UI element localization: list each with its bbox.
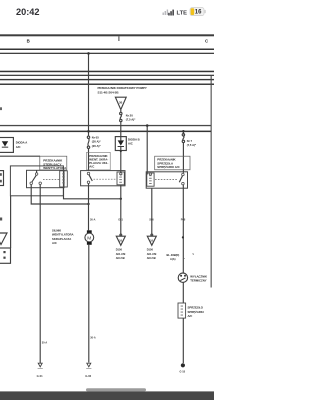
svg-text:G01: G01 bbox=[118, 219, 123, 222]
fan relay coil bbox=[60, 171, 68, 187]
svg-text:*: * bbox=[184, 258, 185, 260]
fan relay top pin wire bbox=[36, 170, 38, 173]
compressor relay K3 bbox=[146, 172, 187, 188]
thermal switch bbox=[178, 273, 187, 282]
status signal bars dark bbox=[168, 10, 174, 16]
wire below diode B bbox=[120, 151, 122, 173]
bus line 7 bbox=[0, 125, 211, 126]
svg-text:(20 A)*: (20 A)* bbox=[92, 144, 102, 148]
svg-text:30-A: 30-A bbox=[90, 337, 96, 340]
left lower box bbox=[0, 248, 11, 263]
svg-text:SPRĘŻARKI A/C: SPRĘŻARKI A/C bbox=[157, 165, 180, 169]
svg-text:16: 16 bbox=[195, 10, 202, 16]
diode B bbox=[118, 140, 124, 145]
bus line 5 bbox=[0, 79, 214, 80]
svg-text:30-A: 30-A bbox=[42, 342, 48, 345]
condenser relay K2 bbox=[81, 171, 125, 186]
wire fan relay pin2 long down bbox=[39, 185, 41, 364]
fan relay outer box bbox=[10, 166, 63, 196]
connector triangle D156 right bbox=[151, 234, 153, 236]
diode A box bbox=[0, 138, 13, 153]
svg-text:BL-03B(D): BL-03B(D) bbox=[167, 253, 180, 257]
svg-text:30-A: 30-A bbox=[90, 219, 96, 222]
wire compressor switch feed bbox=[182, 131, 184, 134]
svg-text:LTE: LTE bbox=[177, 11, 188, 17]
compressor relay coil bbox=[147, 173, 154, 186]
fan relay label box bbox=[40, 156, 67, 170]
ground G01 left bbox=[38, 363, 42, 367]
junction coil bottom bus bbox=[120, 198, 122, 200]
svg-text:(7,5 A)*: (7,5 A)* bbox=[187, 143, 197, 147]
bus line 3 bbox=[0, 71, 214, 73]
condenser relay label box bbox=[87, 152, 111, 170]
junction on bus8 bbox=[87, 130, 90, 133]
wire diode B column bbox=[120, 124, 122, 137]
svg-text:Nr 7: Nr 7 bbox=[187, 139, 193, 143]
svg-text:M: M bbox=[87, 235, 91, 241]
compressor relay label box bbox=[155, 156, 190, 170]
wire right coil feed bbox=[146, 126, 148, 175]
wire clutch down bbox=[182, 318, 184, 363]
svg-text:S11-4B S04-5B: S11-4B S04-5B bbox=[98, 91, 120, 95]
condenser relay coil bbox=[117, 172, 124, 185]
svg-text:A/C: A/C bbox=[188, 314, 193, 318]
frame tick bbox=[118, 36, 119, 41]
svg-text:TERMICZNY: TERMICZNY bbox=[190, 279, 206, 283]
svg-text:PRZEKAźNIK DODATKOWY POMPY: PRZEKAźNIK DODATKOWY POMPY bbox=[98, 86, 147, 90]
svg-text:A01-CM: A01-CM bbox=[147, 252, 157, 256]
junction on bus8 bbox=[182, 130, 185, 133]
svg-text:A/C: A/C bbox=[16, 145, 21, 149]
condenser coil top pin bbox=[120, 173, 122, 175]
svg-text:A(A): A(A) bbox=[170, 257, 176, 261]
connector triangle D156 left bbox=[120, 234, 122, 236]
diagram top frame line bbox=[0, 34, 214, 36]
compressor clutch coil bbox=[178, 303, 186, 318]
svg-text:(7,5 A)*: (7,5 A)* bbox=[126, 117, 136, 121]
svg-text:B: B bbox=[27, 39, 30, 44]
wire splice dot bbox=[182, 236, 184, 238]
diode A bbox=[2, 141, 8, 146]
svg-text:A/C: A/C bbox=[52, 241, 57, 245]
junction below diode B bbox=[120, 150, 122, 152]
bottom nav bar bbox=[0, 391, 214, 400]
wire compressor switch down bbox=[182, 185, 184, 273]
svg-text:20:42: 20:42 bbox=[16, 7, 40, 17]
right page border bbox=[211, 76, 212, 288]
fuse Nr05 bbox=[87, 136, 89, 170]
ground G06 motor bbox=[87, 363, 91, 367]
svg-text:S06: S06 bbox=[149, 219, 154, 222]
bus line 8 bbox=[0, 131, 211, 133]
home pill bbox=[86, 388, 146, 391]
ground compressor bbox=[181, 363, 185, 367]
svg-text:G-06: G-06 bbox=[85, 374, 91, 378]
bus line 4 bbox=[0, 75, 214, 76]
fan relay K1 bbox=[27, 170, 65, 187]
svg-text:A04-5B: A04-5B bbox=[116, 256, 125, 260]
svg-text:G-18: G-18 bbox=[180, 371, 186, 374]
svg-text:P08: P08 bbox=[181, 219, 186, 222]
svg-text:A01-CM: A01-CM bbox=[116, 252, 126, 256]
wire fan relay pin1 down right bbox=[31, 185, 88, 204]
fuse Nr20 bbox=[120, 110, 122, 124]
compressor coil top pin bbox=[149, 173, 151, 175]
wire fan relay coil bottom bbox=[64, 187, 121, 199]
wire to clutch bbox=[182, 282, 184, 303]
wire fan fuse column bbox=[88, 53, 90, 136]
svg-text:30: 30 bbox=[119, 100, 123, 104]
svg-text:D156: D156 bbox=[147, 248, 154, 252]
svg-text:A04-5B: A04-5B bbox=[147, 256, 156, 260]
svg-text:A/C: A/C bbox=[128, 142, 133, 146]
diode B box bbox=[115, 137, 126, 151]
wire outer box pin down bbox=[10, 196, 12, 248]
svg-text:G-01: G-01 bbox=[37, 374, 43, 378]
svg-text:D156: D156 bbox=[116, 248, 123, 252]
status signal bars gray bbox=[163, 10, 169, 16]
wire condenser coil bottom down bbox=[120, 185, 122, 236]
junction on bus7 bbox=[146, 124, 149, 127]
wire compressor coil bottom bbox=[151, 188, 153, 236]
bus line 1 bbox=[0, 49, 214, 51]
fuse Nr7 bbox=[182, 134, 184, 173]
junction motor column bbox=[87, 203, 89, 205]
wire from left edge to fan relay label box bbox=[0, 155, 40, 157]
wire motor down bbox=[88, 245, 90, 363]
motor M bbox=[87, 230, 92, 233]
left edge small box bbox=[0, 171, 4, 186]
connector triangle 30 bbox=[115, 97, 126, 109]
status battery icon bbox=[190, 8, 204, 16]
junction on bus2 bbox=[87, 52, 90, 55]
connector triangle left cut bbox=[0, 233, 7, 245]
bus line 6 bbox=[0, 84, 214, 86]
label tick left edge bbox=[0, 107, 2, 110]
bus line 2 bbox=[0, 53, 214, 54]
wire condenser relay switch down bbox=[88, 184, 90, 231]
wire label left edge bbox=[0, 218, 2, 221]
